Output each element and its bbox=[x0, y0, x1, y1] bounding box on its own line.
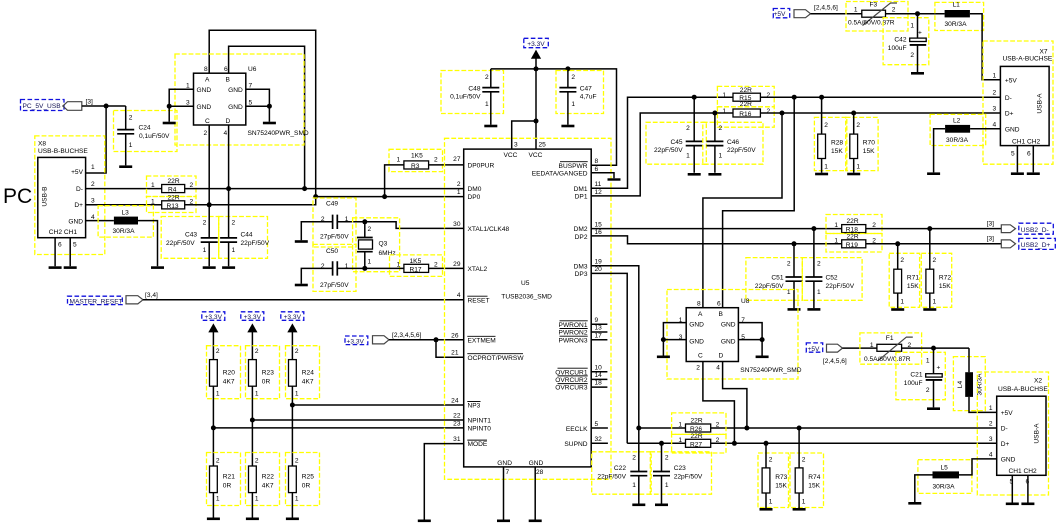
svg-text:R71: R71 bbox=[907, 274, 919, 281]
svg-text:R73: R73 bbox=[775, 474, 787, 481]
junction bbox=[915, 11, 920, 16]
svg-text:+3.3V: +3.3V bbox=[284, 314, 302, 321]
svg-text:USB-B-BUCHSE: USB-B-BUCHSE bbox=[38, 148, 88, 155]
svg-text:1: 1 bbox=[151, 198, 155, 205]
inductor L4 bbox=[953, 348, 996, 412]
svg-text:C48: C48 bbox=[468, 85, 480, 92]
svg-text:D: D bbox=[226, 118, 231, 125]
junction bbox=[302, 186, 307, 191]
svg-text:L3: L3 bbox=[122, 210, 130, 217]
svg-text:+3.3V: +3.3V bbox=[244, 314, 262, 321]
svg-text:15K: 15K bbox=[808, 483, 820, 490]
svg-text:0.5A/60V/0.87R: 0.5A/60V/0.87R bbox=[864, 356, 911, 363]
svg-text:C42: C42 bbox=[894, 37, 906, 44]
svg-text:2: 2 bbox=[91, 181, 95, 188]
svg-text:22R: 22R bbox=[168, 195, 180, 202]
ground bbox=[418, 520, 431, 523]
junction bbox=[211, 425, 216, 430]
wire R15 to X7 D- bbox=[760, 96, 1000, 98]
junction bbox=[207, 202, 212, 207]
svg-text:R23: R23 bbox=[262, 370, 274, 377]
svg-text:2: 2 bbox=[571, 74, 575, 81]
wire MODE to ground bbox=[424, 444, 463, 520]
junction bbox=[692, 95, 697, 100]
IC U5 TUSB2036_SMD bbox=[445, 138, 612, 519]
wire U8 pin8 to X7 D+ line bbox=[703, 113, 782, 308]
ground bbox=[295, 284, 308, 287]
svg-text:4: 4 bbox=[91, 214, 95, 221]
svg-text:0,1uF/50V: 0,1uF/50V bbox=[139, 133, 170, 140]
svg-text:100uF: 100uF bbox=[888, 45, 907, 52]
svg-text:0R: 0R bbox=[223, 483, 232, 490]
svg-text:22pF/50V: 22pF/50V bbox=[654, 147, 683, 154]
ground bbox=[927, 407, 940, 410]
svg-text:R28: R28 bbox=[831, 139, 843, 146]
svg-text:2: 2 bbox=[485, 74, 489, 81]
svg-text:15K: 15K bbox=[831, 148, 843, 155]
net label MASTER_RESET bbox=[68, 292, 158, 305]
fuse F1 bbox=[860, 333, 922, 364]
svg-text:15K: 15K bbox=[939, 283, 951, 290]
capacitor C22 bbox=[592, 428, 652, 504]
svg-text:6: 6 bbox=[224, 66, 228, 73]
svg-text:10: 10 bbox=[595, 364, 603, 371]
svg-text:PC: PC bbox=[3, 185, 32, 208]
ground bbox=[1021, 503, 1034, 506]
svg-text:1: 1 bbox=[926, 358, 930, 365]
svg-text:GND: GND bbox=[689, 338, 704, 345]
junction bbox=[764, 441, 769, 446]
ground bbox=[1027, 172, 1040, 175]
svg-text:11: 11 bbox=[595, 181, 602, 188]
svg-text:16: 16 bbox=[595, 229, 603, 236]
svg-text:1: 1 bbox=[989, 405, 993, 412]
svg-text:USB-A: USB-A bbox=[1037, 93, 1044, 114]
junction bbox=[895, 241, 900, 246]
svg-text:5: 5 bbox=[1011, 151, 1015, 158]
svg-text:22pF/50V: 22pF/50V bbox=[674, 474, 703, 481]
svg-text:1: 1 bbox=[722, 108, 726, 115]
wire R20 to R21 bbox=[212, 386, 214, 466]
svg-text:22R: 22R bbox=[691, 418, 703, 425]
inductor L1 bbox=[935, 1, 984, 30]
resistor R19 bbox=[826, 233, 882, 252]
suppressor U6 SN75240PWR_SMD bbox=[169, 54, 309, 145]
wire DP3 riser bbox=[591, 273, 627, 443]
ground bbox=[561, 125, 574, 128]
svg-text:GND: GND bbox=[497, 460, 512, 467]
svg-text:DM3: DM3 bbox=[574, 263, 588, 270]
svg-text:U8: U8 bbox=[741, 298, 750, 305]
svg-text:1: 1 bbox=[457, 189, 461, 196]
svg-text:1: 1 bbox=[769, 499, 773, 506]
svg-text:22pF/50V: 22pF/50V bbox=[166, 240, 195, 247]
svg-text:L2: L2 bbox=[953, 118, 961, 125]
svg-text:8: 8 bbox=[204, 66, 208, 73]
svg-text:2: 2 bbox=[204, 130, 208, 137]
svg-text:+5V: +5V bbox=[808, 346, 821, 353]
svg-text:1: 1 bbox=[854, 6, 858, 13]
svg-text:22pF/50V: 22pF/50V bbox=[241, 240, 270, 247]
svg-text:2: 2 bbox=[457, 181, 461, 188]
wire +5V to F3 bbox=[811, 13, 862, 15]
svg-text:8: 8 bbox=[697, 301, 701, 308]
junction bbox=[636, 426, 641, 431]
junction bbox=[659, 441, 664, 446]
fuse F3 bbox=[846, 1, 908, 31]
svg-text:RESET: RESET bbox=[468, 297, 490, 304]
svg-text:4,7uF: 4,7uF bbox=[580, 94, 597, 101]
svg-text:32: 32 bbox=[595, 436, 603, 443]
wire R3 to DP0 bbox=[385, 165, 404, 197]
svg-text:PWRON3: PWRON3 bbox=[559, 337, 588, 344]
resistor R25 bbox=[286, 453, 320, 518]
svg-text:0.5A/60V/0.87R: 0.5A/60V/0.87R bbox=[848, 20, 895, 27]
svg-text:R27: R27 bbox=[690, 441, 702, 448]
svg-text:GND: GND bbox=[721, 322, 736, 329]
wire Q3 to R17 to XTAL2 bbox=[365, 267, 464, 269]
capacitor C42 (electrolytic) bbox=[883, 14, 929, 72]
resistor R17 bbox=[390, 255, 443, 277]
svg-text:2: 2 bbox=[900, 257, 904, 264]
ground bbox=[49, 266, 62, 269]
ground bbox=[529, 520, 542, 523]
ground bbox=[222, 266, 235, 269]
svg-text:GND: GND bbox=[529, 460, 544, 467]
svg-text:1: 1 bbox=[255, 391, 259, 398]
svg-text:+5V: +5V bbox=[1005, 78, 1018, 85]
svg-text:C23: C23 bbox=[674, 465, 686, 472]
junction bbox=[712, 111, 717, 116]
ground bbox=[151, 266, 164, 269]
capacitor C45 bbox=[646, 97, 706, 173]
ground bbox=[608, 178, 621, 180]
suppressor U8 SN75240PWR_SMD bbox=[663, 290, 801, 380]
wire L1 to X7 +5V bbox=[970, 14, 1001, 80]
svg-text:2: 2 bbox=[933, 257, 937, 264]
svg-text:D+: D+ bbox=[1001, 441, 1010, 448]
svg-text:DP1: DP1 bbox=[575, 194, 588, 201]
svg-text:2: 2 bbox=[368, 226, 372, 233]
ground bbox=[295, 240, 308, 243]
junction bbox=[250, 418, 255, 423]
svg-text:USB-B: USB-B bbox=[42, 186, 49, 207]
resistor R72 bbox=[921, 229, 951, 309]
svg-text:15K: 15K bbox=[863, 148, 875, 155]
svg-text:C52: C52 bbox=[826, 275, 838, 282]
svg-text:CH2 CH1: CH2 CH1 bbox=[49, 229, 78, 236]
svg-text:2: 2 bbox=[216, 458, 220, 465]
resistor R4 bbox=[147, 176, 197, 197]
svg-text:C21: C21 bbox=[910, 372, 922, 379]
wire F3 to L1 bbox=[886, 13, 945, 15]
junction bbox=[104, 104, 109, 109]
svg-text:1: 1 bbox=[665, 482, 669, 489]
svg-text:2: 2 bbox=[295, 458, 299, 465]
svg-text:+5V: +5V bbox=[774, 11, 787, 18]
wire F1 to L4 bbox=[902, 347, 969, 349]
svg-text:DP3: DP3 bbox=[575, 271, 588, 278]
svg-text:DM0: DM0 bbox=[468, 186, 482, 193]
svg-text:2: 2 bbox=[716, 437, 720, 444]
svg-text:1: 1 bbox=[368, 259, 372, 266]
svg-text:GND: GND bbox=[197, 104, 212, 111]
svg-text:EECLK: EECLK bbox=[566, 426, 588, 433]
junction bbox=[780, 111, 785, 116]
svg-text:17: 17 bbox=[595, 332, 603, 339]
svg-text:9: 9 bbox=[595, 317, 599, 324]
svg-text:D: D bbox=[719, 352, 724, 359]
ground bbox=[64, 266, 77, 269]
ground bbox=[497, 520, 510, 523]
svg-text:31: 31 bbox=[453, 436, 461, 443]
ground bbox=[246, 518, 259, 521]
svg-text:22pF/50V: 22pF/50V bbox=[727, 147, 756, 154]
resistor R73 bbox=[758, 443, 789, 508]
svg-text:L5: L5 bbox=[941, 464, 949, 471]
net label PC_5V_USB bbox=[21, 99, 93, 111]
capacitor C50 bbox=[301, 244, 365, 291]
ground bbox=[286, 518, 299, 521]
svg-text:SN75240PWR_SMD: SN75240PWR_SMD bbox=[248, 130, 309, 137]
svg-text:R72: R72 bbox=[939, 274, 951, 281]
wire R19 to USB2_D+ bbox=[866, 243, 1002, 245]
svg-text:15: 15 bbox=[595, 221, 603, 228]
svg-text:2: 2 bbox=[769, 457, 773, 464]
svg-text:[2,3,4,5,6]: [2,3,4,5,6] bbox=[392, 332, 421, 339]
junction bbox=[661, 337, 666, 342]
svg-text:A: A bbox=[698, 311, 703, 318]
wire U8 pin6 to X7 D- line bbox=[723, 97, 795, 308]
junction bbox=[931, 346, 936, 351]
svg-text:+: + bbox=[918, 30, 922, 37]
wire DM3 riser bbox=[591, 266, 639, 428]
svg-text:Q3: Q3 bbox=[379, 241, 388, 248]
svg-text:+5V: +5V bbox=[1001, 410, 1014, 417]
svg-text:NP3: NP3 bbox=[468, 403, 481, 410]
capacitor C47 bbox=[556, 69, 604, 125]
svg-text:B: B bbox=[719, 311, 724, 318]
resistor R13 bbox=[147, 195, 197, 213]
junction bbox=[290, 403, 295, 408]
svg-text:R16: R16 bbox=[739, 111, 751, 118]
svg-text:TUSB2036_SMD: TUSB2036_SMD bbox=[501, 294, 552, 301]
svg-text:5: 5 bbox=[595, 421, 599, 428]
svg-text:2: 2 bbox=[993, 90, 997, 97]
svg-text:1: 1 bbox=[870, 342, 874, 349]
ground bbox=[1006, 503, 1019, 506]
svg-text:4: 4 bbox=[457, 292, 461, 299]
svg-text:22R: 22R bbox=[847, 233, 859, 240]
svg-text:2: 2 bbox=[926, 387, 930, 394]
svg-text:2: 2 bbox=[632, 454, 636, 461]
net label +3.3V at EXTMEM bbox=[345, 332, 421, 346]
resistor R21 bbox=[207, 453, 241, 518]
ground bbox=[793, 508, 806, 511]
svg-text:2: 2 bbox=[321, 216, 325, 223]
junction bbox=[362, 219, 367, 224]
resistor R15 bbox=[717, 86, 774, 106]
ground bbox=[484, 125, 497, 128]
svg-text:GND: GND bbox=[721, 338, 736, 345]
wire U6 pin8 loop to DP0 bbox=[209, 30, 316, 196]
ground bbox=[760, 508, 773, 511]
svg-text:2: 2 bbox=[686, 125, 690, 132]
svg-text:2: 2 bbox=[802, 457, 806, 464]
ground bbox=[655, 504, 668, 507]
svg-text:27pF/50V: 27pF/50V bbox=[320, 233, 349, 240]
svg-text:1: 1 bbox=[571, 101, 575, 108]
svg-text:22R: 22R bbox=[740, 87, 752, 94]
svg-text:2: 2 bbox=[989, 421, 993, 428]
ground bbox=[911, 72, 924, 75]
junction bbox=[434, 337, 439, 342]
svg-text:R22: R22 bbox=[262, 474, 274, 481]
svg-text:2: 2 bbox=[203, 220, 207, 227]
wire NPINT1 bbox=[252, 419, 463, 421]
wire R4 to DM0 bbox=[185, 188, 464, 190]
svg-text:[3,4]: [3,4] bbox=[145, 292, 158, 299]
svg-text:GND: GND bbox=[228, 87, 243, 94]
svg-text:D-: D- bbox=[76, 186, 83, 193]
svg-text:1: 1 bbox=[295, 496, 299, 503]
ground bbox=[908, 502, 921, 505]
svg-text:USB2_D-: USB2_D- bbox=[1021, 227, 1049, 234]
svg-text:2: 2 bbox=[255, 348, 259, 355]
svg-text:OVRCUR2: OVRCUR2 bbox=[555, 377, 588, 384]
svg-text:2: 2 bbox=[696, 365, 700, 372]
junction bbox=[851, 111, 856, 116]
svg-text:SUPND: SUPND bbox=[564, 441, 587, 448]
svg-text:MASTER_RESET: MASTER_RESET bbox=[70, 298, 123, 305]
svg-text:DP0PUR: DP0PUR bbox=[468, 162, 495, 169]
svg-text:24: 24 bbox=[451, 398, 459, 405]
svg-text:A: A bbox=[205, 77, 210, 84]
junction bbox=[927, 226, 932, 231]
junction bbox=[744, 426, 749, 431]
svg-text:1: 1 bbox=[91, 164, 95, 171]
svg-text:22: 22 bbox=[453, 413, 461, 420]
junction bbox=[267, 104, 272, 109]
svg-text:1K5: 1K5 bbox=[411, 153, 423, 160]
ground bbox=[708, 173, 721, 176]
svg-text:D-: D- bbox=[1005, 95, 1012, 102]
wire SUPND / DP3 to X2 D+ bbox=[591, 442, 997, 444]
svg-text:USB-A-BUCHSE: USB-A-BUCHSE bbox=[998, 386, 1048, 393]
svg-text:3: 3 bbox=[186, 99, 190, 106]
svg-text:1: 1 bbox=[129, 142, 133, 149]
svg-text:4: 4 bbox=[989, 451, 993, 458]
wire U8 pin2 to SUPND line bbox=[703, 362, 735, 444]
svg-text:GND: GND bbox=[1005, 127, 1020, 134]
svg-text:1: 1 bbox=[834, 222, 838, 229]
svg-text:1: 1 bbox=[295, 391, 299, 398]
svg-text:1: 1 bbox=[203, 247, 207, 254]
ground bbox=[657, 356, 670, 359]
wire DM1 to R15 bbox=[591, 97, 733, 188]
svg-text:NPINT0: NPINT0 bbox=[468, 426, 492, 433]
wire to XTAL1 bbox=[365, 222, 464, 229]
ground bbox=[688, 173, 701, 176]
svg-text:2: 2 bbox=[716, 422, 720, 429]
net label +5V (top) bbox=[773, 5, 838, 18]
svg-text:F3: F3 bbox=[870, 1, 878, 8]
svg-text:2: 2 bbox=[824, 122, 828, 129]
junction bbox=[792, 241, 797, 246]
svg-text:3: 3 bbox=[514, 141, 518, 148]
svg-text:2: 2 bbox=[321, 263, 325, 270]
svg-text:C: C bbox=[205, 118, 210, 125]
svg-text:4K7: 4K7 bbox=[302, 379, 314, 386]
svg-text:C50: C50 bbox=[326, 248, 338, 255]
svg-text:6: 6 bbox=[717, 301, 721, 308]
svg-text:VCC: VCC bbox=[504, 152, 518, 159]
svg-text:EEDATA/GANGED: EEDATA/GANGED bbox=[532, 171, 588, 178]
svg-text:R13: R13 bbox=[167, 203, 179, 210]
svg-text:22pF/50V: 22pF/50V bbox=[826, 283, 855, 290]
svg-text:C46: C46 bbox=[727, 139, 739, 146]
wire R13 to DP0 bbox=[185, 197, 464, 205]
svg-text:1: 1 bbox=[834, 237, 838, 244]
svg-text:R21: R21 bbox=[223, 474, 235, 481]
svg-text:CH1 CH2: CH1 CH2 bbox=[1012, 138, 1041, 145]
svg-text:1: 1 bbox=[933, 299, 937, 306]
svg-text:[2,4,5,6]: [2,4,5,6] bbox=[823, 358, 847, 365]
svg-text:4K7: 4K7 bbox=[262, 483, 274, 490]
svg-text:2: 2 bbox=[216, 348, 220, 355]
ground bbox=[847, 173, 860, 176]
svg-text:30R/3A: 30R/3A bbox=[945, 21, 968, 28]
resistor R3 bbox=[389, 149, 443, 171]
supply +3.3V (top center) bbox=[524, 38, 549, 58]
svg-text:6: 6 bbox=[58, 242, 62, 249]
svg-text:4: 4 bbox=[716, 365, 720, 372]
svg-text:EXTMEM: EXTMEM bbox=[468, 337, 496, 344]
svg-text:F1: F1 bbox=[886, 335, 894, 342]
svg-text:GND: GND bbox=[228, 104, 243, 111]
svg-text:1K5: 1K5 bbox=[410, 258, 422, 265]
net label +5V (port 2) bbox=[806, 343, 847, 365]
big label PC bbox=[3, 185, 32, 208]
wire R18 to USB2_D- bbox=[866, 228, 1002, 230]
svg-text:C43: C43 bbox=[185, 232, 197, 239]
svg-text:1: 1 bbox=[345, 216, 349, 223]
net label USB2_D- bbox=[987, 220, 1054, 234]
svg-text:X8: X8 bbox=[38, 141, 46, 148]
wire to X8 pin1 +5V bbox=[86, 106, 107, 173]
svg-text:0,1uF/50V: 0,1uF/50V bbox=[450, 94, 481, 101]
svg-text:1: 1 bbox=[722, 92, 726, 99]
junction bbox=[167, 104, 172, 109]
svg-text:6: 6 bbox=[1027, 151, 1031, 158]
svg-text:D+: D+ bbox=[74, 202, 83, 209]
inductor L5 bbox=[915, 459, 997, 502]
svg-text:21: 21 bbox=[451, 350, 459, 357]
ground bbox=[815, 173, 828, 176]
wire EECLK / DM3 to X2 D- bbox=[591, 427, 997, 429]
junction bbox=[226, 186, 231, 191]
svg-text:1: 1 bbox=[993, 73, 997, 80]
wire R16 to X7 D+ bbox=[760, 112, 1000, 114]
svg-text:C47: C47 bbox=[580, 85, 592, 92]
svg-text:PC_5V_USB: PC_5V_USB bbox=[23, 103, 62, 110]
svg-text:USB2_D+: USB2_D+ bbox=[1021, 242, 1051, 249]
wire to EXTMEM bbox=[389, 339, 464, 341]
crystal Q3 6MHz bbox=[353, 218, 400, 272]
svg-text:23: 23 bbox=[453, 420, 461, 427]
svg-text:22R: 22R bbox=[740, 101, 752, 108]
svg-text:2: 2 bbox=[719, 125, 723, 132]
